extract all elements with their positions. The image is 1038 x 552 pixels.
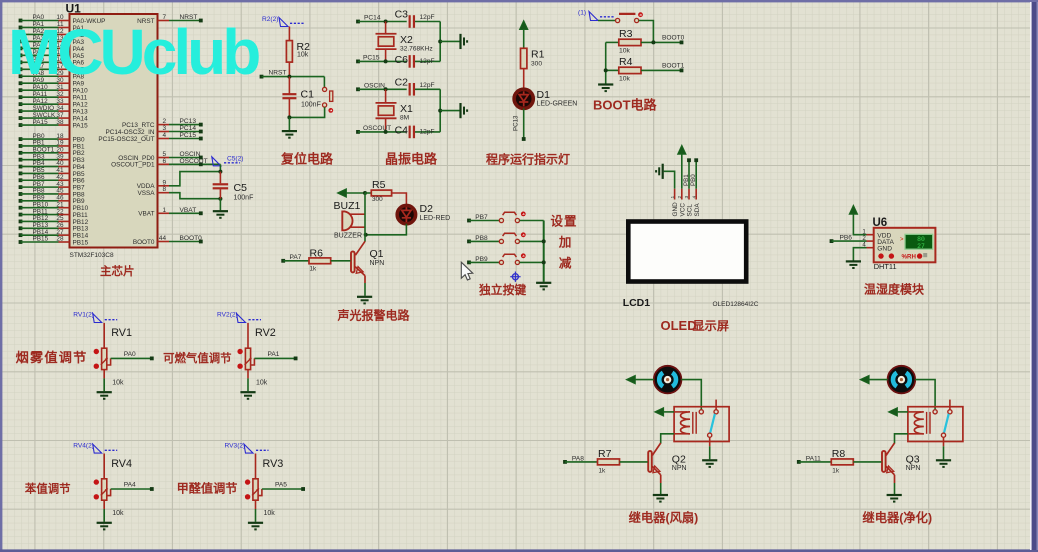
svg-text:甲醛值调节: 甲醛值调节 (177, 481, 238, 496)
wire crystal right (438, 89, 459, 132)
power VCC motor Q3 (860, 375, 888, 383)
pin 31 PA10 wire (19, 84, 89, 95)
pin 39 PB3 wire (19, 153, 85, 164)
pin 33 PA12 wire (19, 98, 89, 109)
crystal X2 (376, 22, 433, 62)
motor Q3 load (888, 366, 916, 394)
svg-text:STM32F103C8: STM32F103C8 (70, 252, 114, 259)
svg-text:BUZZER: BUZZER (334, 233, 362, 240)
svg-text:声光报警电路: 声光报警电路 (337, 307, 411, 322)
svg-text:BOOT0: BOOT0 (662, 35, 685, 42)
svg-text:继电器(风扇): 继电器(风扇) (629, 510, 699, 525)
pin 17 PA7 wire (19, 63, 85, 74)
svg-text:1k: 1k (310, 265, 318, 272)
svg-text:显示屏: 显示屏 (693, 319, 730, 333)
svg-text:1: 1 (670, 196, 676, 199)
svg-text:RV2(2): RV2(2) (217, 312, 238, 319)
power VCC coil Q3 (888, 408, 908, 416)
button PB9 (467, 253, 544, 264)
pin 4 PC15 wire (98, 132, 202, 143)
svg-text:8M: 8M (400, 115, 409, 122)
svg-text:C1: C1 (301, 89, 315, 101)
node PA4 (111, 482, 154, 491)
svg-text:80: 80 (917, 236, 925, 243)
svg-text:LED-GREEN: LED-GREEN (537, 101, 578, 108)
svg-text:100nF: 100nF (234, 195, 254, 202)
wire motor to relay Q3 (915, 380, 935, 410)
LED D1 LED-GREEN (514, 89, 577, 108)
buzzer BUZ1 (334, 200, 366, 240)
ground C5 (213, 199, 228, 218)
svg-text:PC14: PC14 (180, 125, 197, 132)
capacitor C6 12pF (395, 54, 441, 68)
svg-text:主芯片: 主芯片 (100, 264, 135, 278)
flag R2(2) (262, 16, 304, 27)
origin marker (510, 272, 520, 282)
svg-text:SWDIO: SWDIO (33, 105, 55, 112)
svg-text:10k: 10k (112, 379, 124, 386)
ground DHT11 (846, 248, 867, 268)
pin 38 PA15 wire (19, 119, 89, 130)
power VCC D1 (520, 21, 528, 49)
svg-text:44: 44 (159, 235, 167, 242)
svg-text:32.768KHz: 32.768KHz (400, 45, 433, 52)
svg-text:100nF: 100nF (301, 102, 321, 109)
svg-text:SCL: SCL (687, 204, 694, 217)
svg-text:10k: 10k (619, 48, 631, 55)
svg-text:Q3: Q3 (906, 454, 920, 466)
mouse cursor (461, 262, 473, 280)
ground relay contact Q3 (936, 446, 951, 467)
pin 15 PA5 wire (19, 49, 85, 60)
ground RV1 (97, 370, 112, 399)
capacitor C3 12pF (395, 9, 441, 28)
node PB0 SDA (690, 158, 698, 189)
ground boot (598, 85, 613, 92)
wire crystal right (438, 22, 459, 62)
svg-text:PB15: PB15 (33, 236, 49, 243)
svg-text:PA5: PA5 (275, 482, 287, 489)
resistor R4 10k (606, 56, 685, 83)
node PB1 SCL (683, 158, 691, 189)
svg-text:R5: R5 (372, 179, 386, 191)
svg-text:NRST: NRST (269, 70, 287, 77)
svg-text:设置: 设置 (551, 214, 578, 229)
pin 13 PA3 wire (19, 35, 85, 46)
svg-text:28: 28 (56, 236, 64, 243)
op: U1 STM32F103C8 main chip (66, 2, 158, 260)
pin 7 NRST wire (137, 14, 203, 25)
svg-text:1k: 1k (599, 467, 607, 474)
svg-text:D1: D1 (537, 89, 551, 101)
svg-text:BUZ1: BUZ1 (334, 200, 361, 212)
motor Q2 load (654, 366, 682, 394)
button PB7 (467, 212, 544, 223)
pin 20 BOOT1 wire (19, 147, 85, 158)
ground keys (536, 283, 551, 290)
wire coil to Q2 collector (661, 434, 690, 444)
svg-text:BOOT电路: BOOT电路 (593, 97, 658, 112)
svg-text:LCD1: LCD1 (623, 297, 651, 309)
svg-text:10k: 10k (256, 379, 268, 386)
ground crystal (461, 34, 468, 49)
svg-text:RV4: RV4 (111, 458, 132, 470)
svg-text:OSCIN: OSCIN (364, 82, 385, 89)
LCD1 pins (670, 189, 701, 217)
pin 21 PB10 wire (19, 201, 89, 212)
pin 19 PB1 wire (19, 140, 85, 151)
svg-text:PA4: PA4 (124, 482, 136, 489)
potentiometer RV1 10k (94, 323, 132, 387)
svg-text:PA7: PA7 (290, 254, 302, 261)
pin 43 PB7 wire (19, 181, 85, 192)
ground Q1 (357, 283, 372, 303)
svg-text:PA10: PA10 (73, 88, 89, 95)
pin 14 PA4 wire (19, 42, 85, 53)
svg-text:3: 3 (684, 196, 690, 199)
flag RV4(2) (73, 442, 117, 453)
sensor U6 DHT11 (862, 217, 935, 271)
svg-text:独立按键: 独立按键 (478, 283, 526, 297)
svg-text:10k: 10k (264, 510, 276, 517)
svg-text:R6: R6 (310, 247, 324, 259)
svg-text:SDA: SDA (694, 203, 701, 217)
resistor R1 300 (521, 48, 545, 89)
power VCC OLED (678, 145, 686, 189)
relay RL Q3 (908, 400, 963, 447)
svg-text:NPN: NPN (906, 465, 921, 472)
pin 18 PB0 wire (19, 133, 85, 144)
svg-text:PC14: PC14 (364, 15, 381, 22)
svg-text:NPN: NPN (672, 465, 687, 472)
pin 30 PA9 wire (19, 77, 85, 88)
display LCD1 OLED12864I2C (623, 219, 759, 309)
wire keys bus (542, 221, 546, 282)
svg-text:Q1: Q1 (370, 248, 384, 260)
svg-text:X1: X1 (400, 103, 413, 115)
node PA5 (262, 482, 305, 491)
ground OLED (656, 164, 674, 189)
relay RL Q2 (674, 400, 729, 447)
node OSCIN (356, 82, 407, 91)
wire VDDA net (137, 172, 221, 191)
svg-text:GND: GND (672, 202, 679, 217)
svg-text:12pF: 12pF (420, 14, 435, 21)
svg-text:VBAT: VBAT (180, 207, 197, 214)
svg-text:R4: R4 (619, 56, 633, 68)
svg-text:PA13: PA13 (73, 109, 89, 116)
pin 5 OSCIN wire (118, 151, 202, 162)
flag C5(2) (212, 156, 244, 166)
wire VSSA net (137, 186, 222, 201)
svg-text:PC14-OSC32_IN: PC14-OSC32_IN (105, 129, 154, 136)
power VCC alarm (337, 189, 367, 197)
svg-text:8: 8 (162, 186, 166, 193)
svg-text:PB1: PB1 (683, 174, 690, 186)
node PA1 (254, 351, 297, 360)
flag RV1(2) (73, 312, 117, 323)
node PA0 (111, 351, 154, 360)
resistor R7 1k (563, 448, 648, 474)
svg-text:RV2: RV2 (255, 327, 276, 339)
svg-text:12pF: 12pF (420, 58, 435, 65)
svg-text:R7: R7 (598, 448, 612, 460)
pin 29 PA8 wire (19, 70, 85, 81)
svg-text:PA1: PA1 (268, 351, 280, 358)
svg-text:程序运行指示灯: 程序运行指示灯 (486, 152, 570, 167)
svg-text:3: 3 (162, 125, 166, 132)
pin 32 PA11 wire (19, 91, 88, 102)
pin 3 PC14 wire (105, 125, 202, 136)
svg-text:PA14: PA14 (73, 115, 89, 122)
svg-text:34: 34 (56, 105, 64, 112)
ground RV3 (248, 500, 263, 529)
capacitor C1 (282, 77, 320, 118)
svg-text:4: 4 (162, 132, 166, 139)
resistor R5 300 (365, 179, 406, 205)
svg-text:32: 32 (56, 91, 64, 98)
svg-text:RV4(2): RV4(2) (73, 442, 94, 449)
svg-text:SWCLK: SWCLK (33, 112, 56, 119)
pin 1 VBAT wire (138, 207, 202, 218)
svg-text:C2: C2 (395, 76, 409, 88)
svg-text:PC15: PC15 (363, 54, 380, 61)
svg-text:PA0: PA0 (124, 351, 136, 358)
potentiometer RV4 10k (94, 454, 132, 518)
svg-text:减: 减 (559, 255, 572, 270)
svg-text:苯值调节: 苯值调节 (24, 482, 71, 496)
ground relay contact Q2 (702, 446, 717, 467)
svg-text:X2: X2 (400, 34, 413, 46)
flag RV3(2) (225, 442, 269, 453)
button PB8 (467, 232, 544, 243)
ground crystal (461, 103, 468, 118)
flag RV2(2) (217, 312, 261, 323)
svg-text:PA15: PA15 (33, 119, 49, 126)
power VCC motor Q2 (626, 375, 654, 383)
svg-text:37: 37 (56, 112, 64, 119)
transistor Q3 NPN (882, 443, 920, 483)
pin 42 PB6 wire (19, 174, 85, 185)
svg-text:DHT11: DHT11 (874, 262, 897, 271)
svg-text:OLED12864I2C: OLED12864I2C (713, 301, 759, 308)
svg-text:VSSA: VSSA (137, 190, 155, 197)
power VCC DHT11 (849, 205, 866, 235)
wire D1 to PC13 (513, 108, 526, 141)
node OSCOUT (356, 125, 407, 134)
svg-text:烟雾值调节: 烟雾值调节 (16, 349, 88, 365)
svg-text:OSCOUT_PD1: OSCOUT_PD1 (111, 162, 155, 169)
pin 2 PC13 wire (122, 118, 203, 129)
wire coil to Q3 collector (895, 434, 924, 444)
svg-text:2: 2 (677, 196, 683, 199)
svg-text:C5: C5 (234, 182, 248, 194)
svg-text:VBAT: VBAT (138, 211, 154, 218)
svg-text:PA12: PA12 (33, 98, 49, 105)
svg-text:C4: C4 (395, 124, 409, 136)
flag (1) boot (578, 10, 614, 21)
pin 34 SWDIO wire (19, 105, 89, 116)
capacitor C4 12pF (395, 124, 441, 138)
svg-text:PA11: PA11 (33, 91, 48, 98)
transistor Q1 NPN (351, 235, 384, 283)
svg-text:C3: C3 (395, 9, 409, 21)
svg-text:R1: R1 (531, 49, 545, 61)
svg-text:Q2: Q2 (672, 454, 686, 466)
pin 12 PA2 wire (19, 28, 85, 39)
pin 37 SWCLK wire (19, 112, 89, 123)
svg-text:复位电路: 复位电路 (280, 152, 334, 167)
svg-text:C6: C6 (395, 54, 409, 66)
svg-text:LED-RED: LED-RED (420, 215, 451, 222)
svg-text:10k: 10k (297, 52, 309, 59)
crystal X1 (376, 89, 414, 132)
pin 46 PB9 wire (19, 195, 85, 206)
svg-text:晶振电路: 晶振电路 (385, 152, 438, 167)
svg-text:RV1: RV1 (111, 327, 132, 339)
svg-text:BOOT0: BOOT0 (133, 239, 155, 246)
svg-text:38: 38 (56, 119, 64, 126)
svg-text:PA15: PA15 (73, 122, 89, 129)
potentiometer RV2 10k (237, 323, 275, 387)
pin 45 PB8 wire (19, 188, 85, 199)
pin 26 PB13 wire (19, 222, 89, 233)
svg-text:RV3: RV3 (263, 458, 284, 470)
switch boot (598, 12, 653, 42)
svg-text:27: 27 (917, 243, 925, 250)
capacitor C2 12pF (395, 76, 441, 95)
pin 10 PA0 wire (19, 14, 106, 25)
svg-text:加: 加 (558, 234, 572, 249)
svg-text:1k: 1k (832, 467, 840, 474)
svg-text:PC13: PC13 (513, 115, 520, 131)
svg-text:10k: 10k (619, 76, 631, 83)
svg-text:4: 4 (691, 196, 697, 199)
pin 27 PB14 wire (19, 229, 89, 240)
svg-text:R2(2): R2(2) (262, 16, 279, 23)
svg-text:300: 300 (372, 196, 383, 203)
resistor R6 1k (281, 247, 350, 272)
pin 16 PA6 wire (19, 56, 85, 67)
ground reset (282, 117, 297, 137)
svg-text:继电器(净化): 继电器(净化) (862, 510, 932, 525)
wire D2 to junction (364, 224, 407, 237)
svg-text:OLED: OLED (661, 318, 697, 333)
svg-text:D2: D2 (420, 203, 434, 215)
svg-text:(1): (1) (578, 10, 586, 17)
svg-text:1: 1 (162, 207, 166, 214)
node PB6 (830, 234, 867, 243)
svg-text:RV1(2): RV1(2) (73, 312, 94, 319)
svg-text:PB15: PB15 (73, 239, 89, 246)
transistor Q2 NPN (648, 443, 686, 483)
pin 40 PB4 wire (19, 160, 85, 171)
svg-text:300: 300 (531, 61, 542, 68)
node PC14 (356, 15, 407, 24)
svg-text:R8: R8 (832, 448, 846, 460)
svg-text:NPN: NPN (370, 260, 385, 267)
wire buzzer vertical (364, 193, 366, 235)
capacitor C5 (213, 172, 254, 202)
ground RV4 (97, 500, 112, 529)
svg-text:10k: 10k (112, 510, 124, 517)
svg-text:R3: R3 (619, 28, 633, 40)
ground Q2 (653, 483, 668, 502)
node PC15 (356, 54, 407, 63)
power VCC coil Q2 (655, 408, 675, 416)
svg-text:6: 6 (162, 158, 166, 165)
svg-text:可燃气值调节: 可燃气值调节 (163, 351, 232, 365)
svg-text:GND: GND (877, 246, 892, 253)
pin 28 PB15 wire (19, 236, 89, 247)
svg-text:PB0: PB0 (690, 174, 697, 186)
pin 6 OSCOUT wire (111, 158, 220, 169)
svg-text:12pF: 12pF (420, 128, 435, 135)
svg-text:33: 33 (56, 98, 64, 105)
svg-text:RV3(2): RV3(2) (225, 442, 246, 449)
pin 25 PB12 wire (19, 215, 89, 226)
wire boot left vertical (604, 42, 608, 83)
svg-text:4: 4 (862, 242, 866, 249)
resistor R3 10k (606, 28, 685, 55)
potentiometer RV3 10k (245, 454, 283, 518)
svg-text:BOOT0: BOOT0 (180, 235, 203, 242)
wire motor to relay Q2 (681, 380, 701, 410)
svg-text:%RH: %RH (902, 253, 917, 260)
pin 44 BOOT0 wire (133, 235, 203, 246)
svg-text:MCUclub: MCUclub (8, 16, 259, 88)
svg-text:PA12: PA12 (73, 102, 89, 109)
svg-text:温湿度模块: 温湿度模块 (864, 281, 925, 296)
svg-text:OSCOUT: OSCOUT (180, 158, 208, 165)
button reset (287, 77, 333, 120)
svg-text:PA11: PA11 (73, 95, 88, 102)
svg-text:C5(2): C5(2) (227, 156, 244, 163)
wire OSCOUT to C5 (218, 164, 222, 173)
ground Q3 (887, 483, 902, 502)
node NRST (260, 70, 325, 79)
LED D2 LED-RED (397, 203, 450, 224)
svg-text:12pF: 12pF (420, 82, 435, 89)
svg-text:VCC: VCC (679, 203, 686, 217)
svg-text:PC15-OSC32_OUT: PC15-OSC32_OUT (98, 136, 154, 143)
svg-text:PC15: PC15 (180, 132, 197, 139)
resistor R8 1k (797, 448, 882, 474)
pin 11 PA1 wire (19, 21, 85, 32)
svg-text:BOOT1: BOOT1 (662, 63, 685, 70)
svg-text:>: > (900, 237, 904, 243)
pin 41 PB5 wire (19, 167, 85, 178)
pin 22 PB11 wire (19, 208, 89, 219)
ground RV2 (240, 370, 255, 399)
resistor R2 (286, 27, 310, 77)
